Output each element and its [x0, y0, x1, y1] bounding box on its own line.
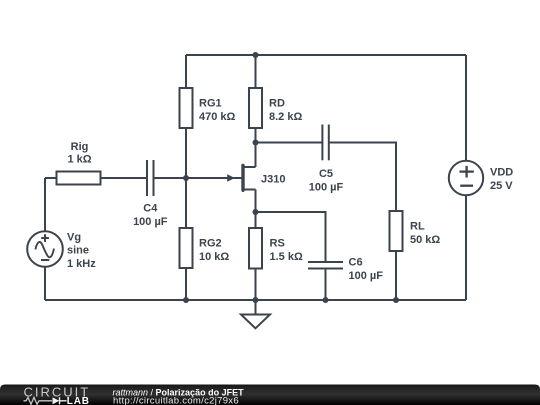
voltage source VDD [449, 161, 483, 195]
wire bottom rail [45, 299, 466, 301]
resistor Rig [57, 172, 101, 185]
wire RG1 bottom [185, 128, 187, 178]
svg-text:C4: C4 [143, 203, 158, 215]
svg-text:1 kHz: 1 kHz [67, 258, 96, 270]
svg-text:RG2: RG2 [199, 238, 222, 250]
wire left rail bottom [44, 267, 46, 300]
footer logo resistor zigzag [24, 397, 53, 404]
svg-text:Vg: Vg [67, 231, 81, 243]
svg-text:25 V: 25 V [490, 180, 513, 192]
junction drain node [253, 140, 259, 146]
wire RG2 bottom [185, 268, 187, 300]
wire RD to drain [255, 128, 257, 167]
junction C6 bottom [323, 297, 329, 303]
svg-text:Rig: Rig [71, 141, 89, 153]
svg-text:100 µF: 100 µF [309, 182, 344, 194]
svg-text:C5: C5 [319, 168, 333, 180]
capacitor C4 [147, 160, 154, 196]
svg-text:J310: J310 [261, 173, 285, 185]
wire gate stub left [45, 177, 57, 179]
svg-text:RL: RL [410, 221, 425, 233]
wire C4 to gate [154, 177, 242, 179]
svg-text:VDD: VDD [490, 167, 513, 179]
wire C6 bottom [325, 269, 327, 301]
ground [241, 315, 270, 329]
wire RG1 top [185, 55, 187, 88]
wire RS bottom [255, 269, 257, 301]
wire source column [255, 190, 257, 229]
footer bar [0, 385, 540, 405]
resistor RS [249, 228, 262, 269]
wire left rail top [44, 178, 46, 231]
svg-text:RG1: RG1 [199, 98, 222, 110]
wire source stub [244, 189, 256, 191]
svg-text:RS: RS [270, 238, 285, 250]
wire RL bottom [395, 251, 397, 300]
capacitor C5 [322, 125, 328, 161]
junction RG2 bottom [183, 297, 189, 303]
svg-text:470 kΩ: 470 kΩ [199, 111, 236, 123]
capacitor C6 [308, 262, 343, 269]
svg-text:sine: sine [67, 245, 89, 257]
footer logo diode [53, 397, 60, 404]
svg-text:10 kΩ: 10 kΩ [199, 251, 229, 263]
wire drain to C5 [256, 142, 323, 144]
svg-text:50 kΩ: 50 kΩ [410, 234, 440, 246]
wire ground stub [255, 300, 257, 315]
transistor J310 gate arrow [227, 174, 235, 181]
wire RD top [255, 55, 257, 88]
svg-text:LAB: LAB [67, 396, 90, 405]
svg-text:RD: RD [269, 98, 285, 110]
junction top rail [253, 52, 259, 58]
svg-text:100 µF: 100 µF [349, 270, 384, 282]
junction source node [253, 209, 259, 215]
voltage source Vg [27, 231, 63, 267]
wire drain stub [244, 166, 256, 168]
wire VDD bottom [465, 195, 467, 300]
resistor RL [390, 211, 403, 251]
svg-text:8.2 kΩ: 8.2 kΩ [269, 111, 302, 123]
svg-text:100 µF: 100 µF [133, 216, 168, 228]
resistor RG2 [180, 228, 193, 268]
transistor J310 gate bar [241, 164, 244, 192]
svg-text:1.5 kΩ: 1.5 kΩ [270, 251, 303, 263]
wire VDD top [465, 55, 467, 161]
resistor RD [249, 88, 262, 128]
wire Rig to C4 [101, 177, 148, 179]
wire source to C6 [256, 212, 326, 262]
wire RG2 top [185, 178, 187, 228]
junction gate node [183, 175, 189, 181]
junction ground node [253, 297, 259, 303]
svg-text:1 kΩ: 1 kΩ [67, 153, 91, 165]
wire top rail [186, 54, 466, 56]
junction RL bottom [393, 297, 399, 303]
svg-text:C6: C6 [349, 257, 363, 269]
wire C5 to RL [329, 143, 396, 212]
resistor RG1 [180, 88, 193, 128]
svg-text:http://circuitlab.com/c2j79x6: http://circuitlab.com/c2j79x6 [113, 396, 239, 405]
